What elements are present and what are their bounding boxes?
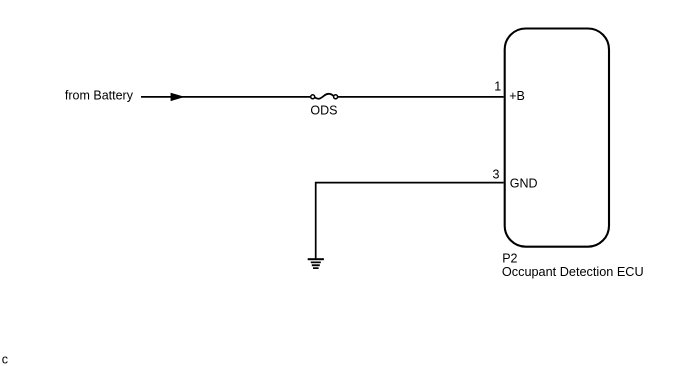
svg-text:Occupant Detection ECU: Occupant Detection ECU xyxy=(502,265,644,279)
ECU P2 body (Occupant Detection ECU) xyxy=(505,29,609,247)
wire: GND pin to ground xyxy=(316,183,504,260)
ground xyxy=(308,258,324,269)
svg-text:1: 1 xyxy=(494,79,501,93)
wire: battery feed to fuse xyxy=(141,96,311,98)
svg-text:ODS: ODS xyxy=(310,104,337,118)
fuse ODS xyxy=(311,94,338,99)
svg-text:3: 3 xyxy=(492,167,499,181)
arrow: current direction xyxy=(171,93,185,101)
svg-text:P2: P2 xyxy=(502,251,517,265)
svg-text:GND: GND xyxy=(510,176,538,190)
svg-text:c: c xyxy=(2,353,8,366)
svg-text:from Battery: from Battery xyxy=(65,88,134,102)
svg-text:+B: +B xyxy=(509,89,525,103)
wire: fuse to +B pin xyxy=(338,96,504,98)
